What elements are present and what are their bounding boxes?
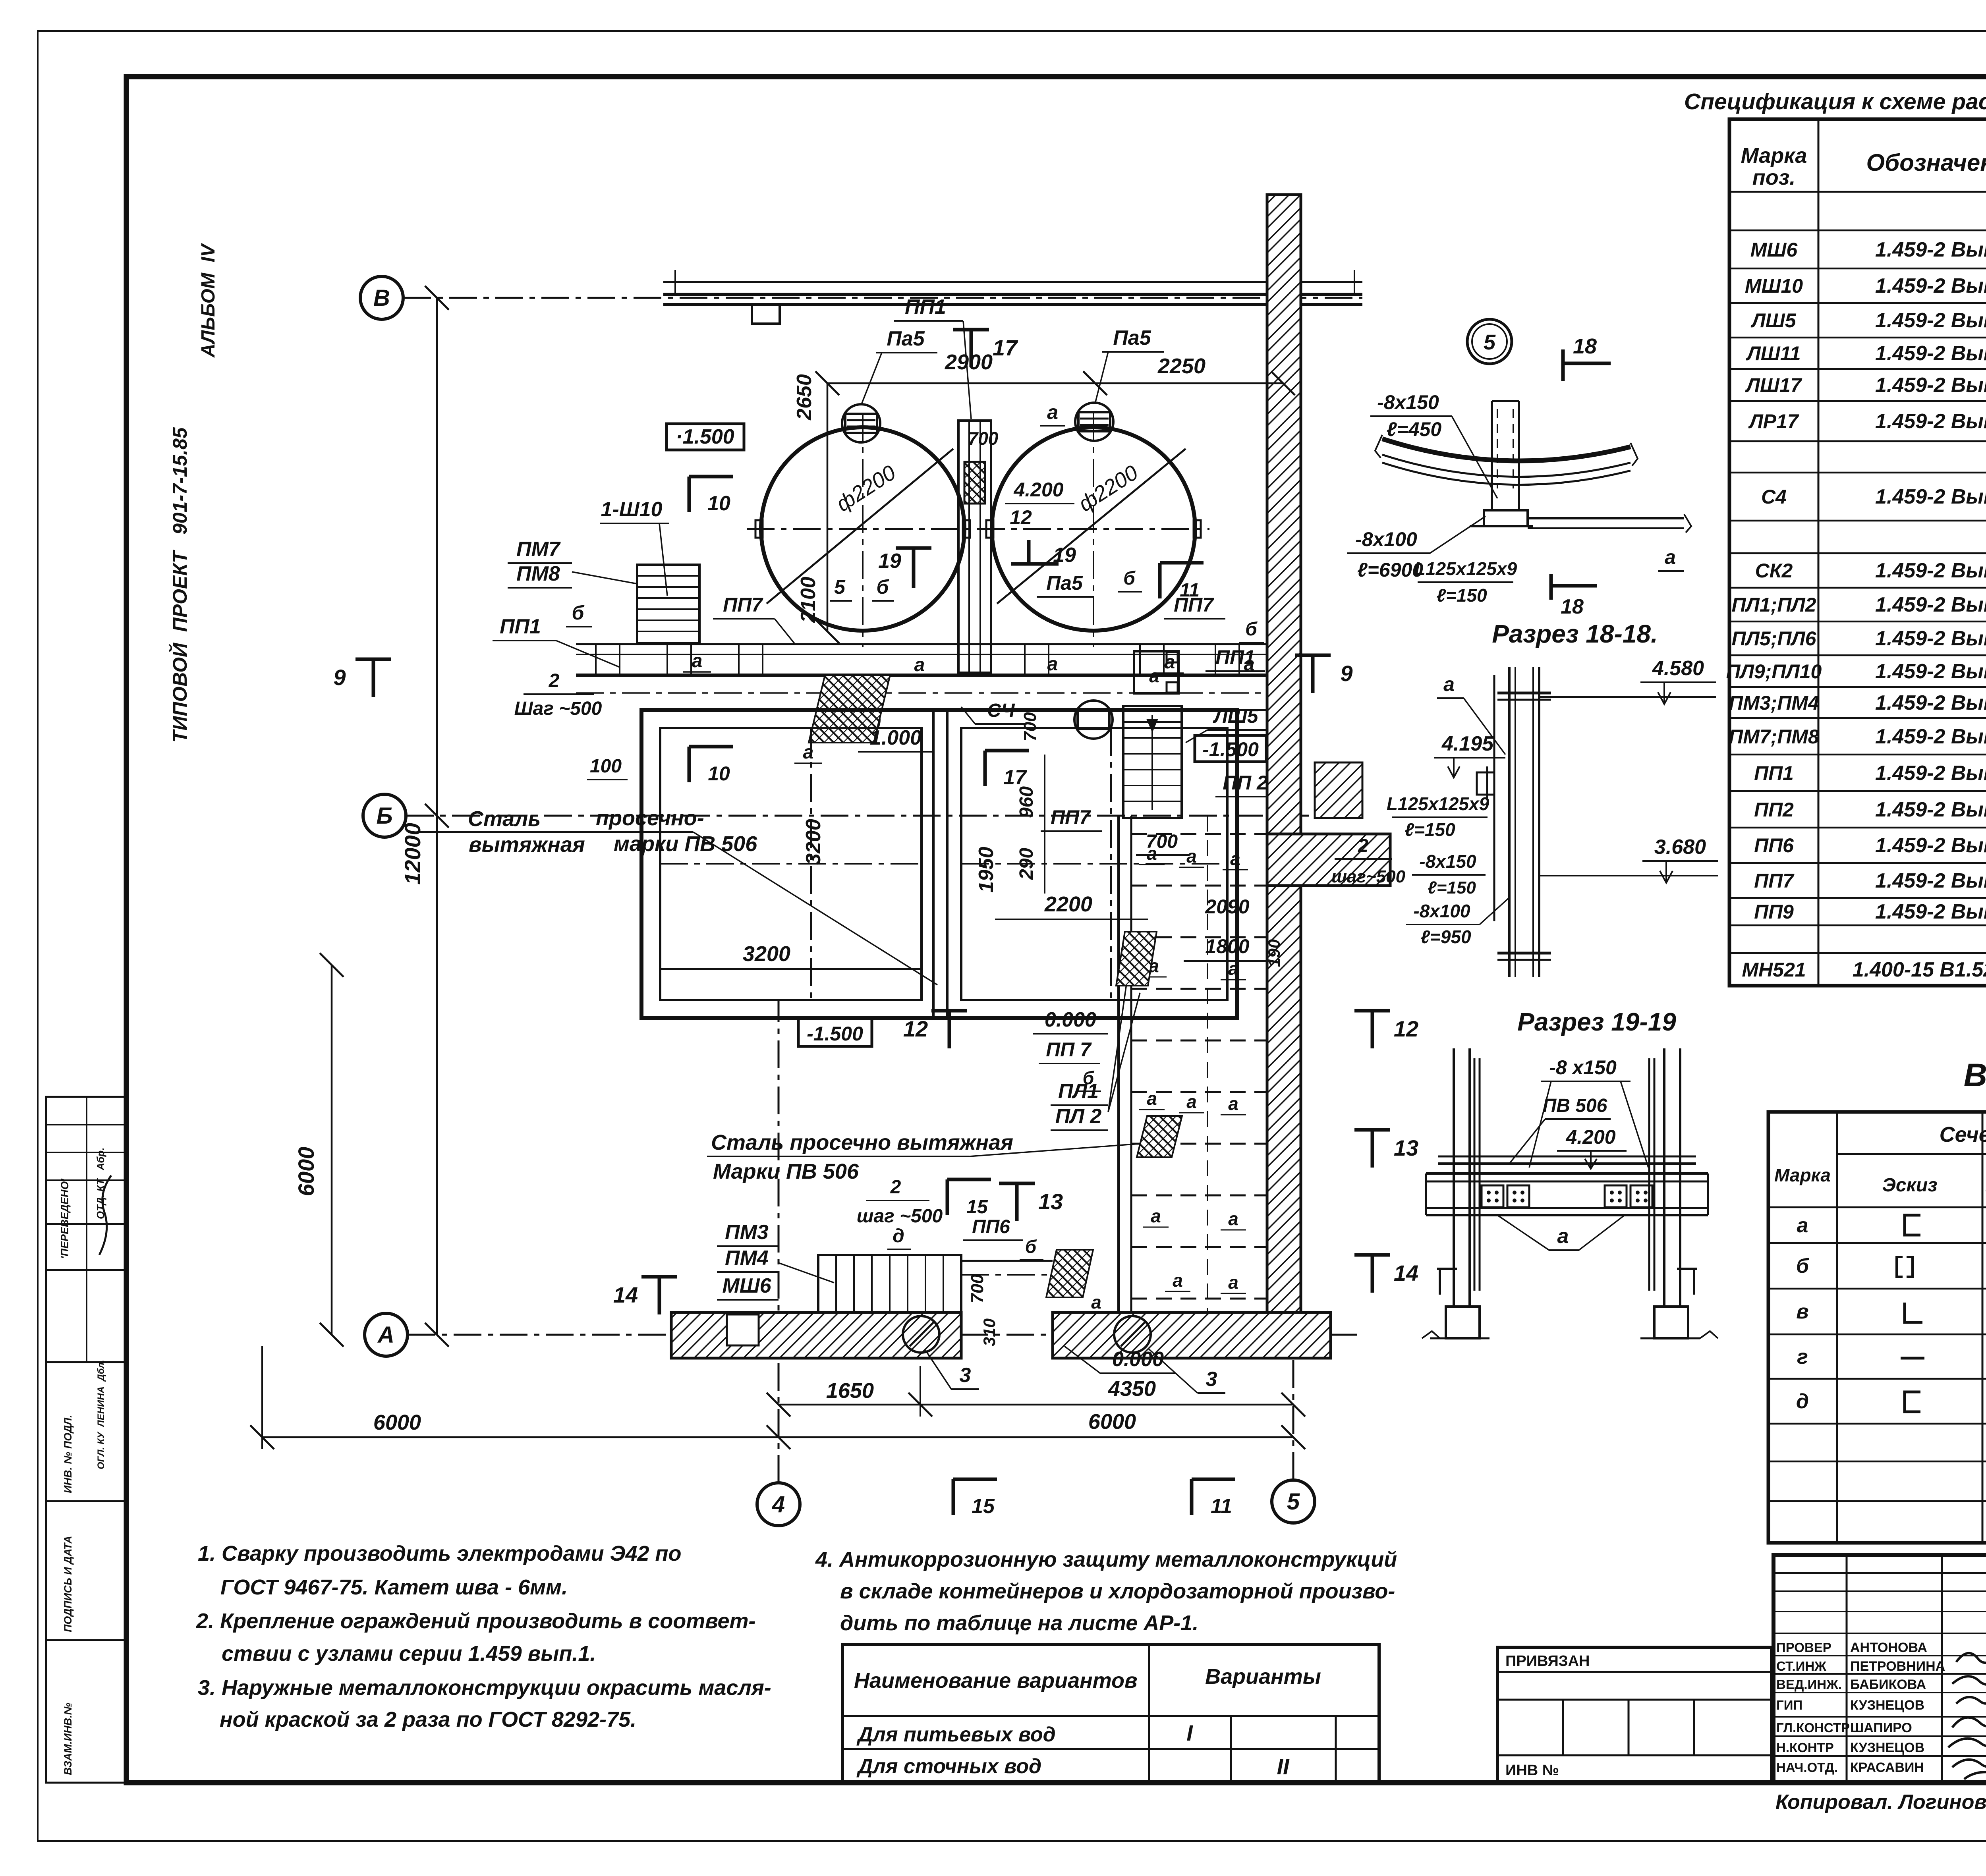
svg-text:ТИПОВОЙ ПРОЕКТ 901-7-15.85: ТИПОВОЙ ПРОЕКТ 901-7-15.85 bbox=[168, 427, 191, 743]
svg-text:а: а bbox=[1665, 546, 1676, 568]
dim line 2900/2250 bbox=[827, 382, 1283, 384]
sidebar lower boxes bbox=[46, 1362, 126, 1783]
svg-text:Обозначение: Обозначение bbox=[1866, 149, 1986, 176]
svg-text:а: а bbox=[692, 650, 703, 672]
svg-text:а: а bbox=[1047, 654, 1058, 675]
axis 4 bbox=[757, 1483, 800, 1526]
top wall beam bbox=[663, 281, 1362, 283]
svg-text:960: 960 bbox=[1016, 786, 1037, 818]
svg-text:13: 13 bbox=[1038, 1189, 1063, 1214]
svg-text:ℓ=450: ℓ=450 bbox=[1387, 418, 1442, 440]
svg-text:д: д bbox=[1796, 1390, 1809, 1413]
svg-text:-8x150: -8x150 bbox=[1377, 391, 1439, 413]
tank 2 top nozzle bbox=[1075, 403, 1113, 441]
svg-text:12: 12 bbox=[1010, 506, 1032, 529]
sec 11 bottom bbox=[1190, 1479, 1194, 1515]
svg-text:ПЛ 2: ПЛ 2 bbox=[1055, 1105, 1102, 1128]
svg-text:просечно-: просечно- bbox=[596, 806, 704, 830]
manhole circle 2 bbox=[1114, 1316, 1151, 1353]
18-18 column bbox=[1491, 401, 1493, 510]
svg-text:·1.500: ·1.500 bbox=[676, 425, 734, 448]
vertical dim line left (12000) bbox=[436, 298, 438, 1335]
svg-text:19: 19 bbox=[878, 550, 901, 573]
dim 2650 vertical bbox=[827, 383, 829, 631]
19-19 elevation column bbox=[1508, 667, 1511, 977]
svg-text:1.000: 1.000 bbox=[870, 726, 922, 749]
svg-text:а: а bbox=[1228, 1272, 1238, 1293]
svg-text:ЛР17: ЛР17 bbox=[1748, 410, 1799, 432]
svg-text:2250: 2250 bbox=[1157, 354, 1206, 378]
svg-text:ℓ=950: ℓ=950 bbox=[1420, 926, 1471, 947]
upper right stair ЛШ5 bbox=[1123, 706, 1182, 818]
svg-text:СЧ: СЧ bbox=[987, 700, 1015, 721]
svg-text:а: а bbox=[1230, 848, 1240, 869]
svg-text:ПМ7: ПМ7 bbox=[516, 538, 561, 561]
svg-text:290: 290 bbox=[1016, 848, 1037, 880]
svg-text:I: I bbox=[1186, 1720, 1193, 1745]
spec table grid bbox=[1729, 119, 1986, 986]
axis Б bbox=[363, 794, 406, 837]
svg-text:4. Антикоррозионную защиту м: 4. Антикоррозионную защиту металлоконстр… bbox=[815, 1548, 1397, 1571]
svg-text:ЛШ5: ЛШ5 bbox=[1750, 309, 1796, 332]
boxed -1.500 lower bbox=[798, 1019, 872, 1046]
section: circled 5 bbox=[1467, 319, 1512, 364]
svg-text:ГОСТ 9467-75. Катет шва - 6мм.: ГОСТ 9467-75. Катет шва - 6мм. bbox=[220, 1575, 568, 1599]
svg-text:Для сточных вод: Для сточных вод bbox=[856, 1755, 1041, 1778]
signatures bbox=[1956, 1653, 1986, 1663]
axis А bbox=[365, 1313, 408, 1356]
variants table bbox=[842, 1644, 1379, 1781]
svg-text:1.459-2 Вып.2: 1.459-2 Вып.2 bbox=[1875, 593, 1986, 616]
svg-text:2090: 2090 bbox=[1205, 896, 1249, 918]
svg-text:1.459-2 Вып.2: 1.459-2 Вып.2 bbox=[1875, 691, 1986, 714]
svg-text:Марки ПВ 506: Марки ПВ 506 bbox=[713, 1160, 859, 1183]
tank 2 bbox=[992, 427, 1195, 631]
svg-text:а: а bbox=[1091, 1292, 1101, 1312]
svg-text:-1.500: -1.500 bbox=[807, 1023, 863, 1045]
svg-text:Марка: Марка bbox=[1774, 1165, 1831, 1185]
svg-text:ВЕД.ИНЖ.: ВЕД.ИНЖ. bbox=[1776, 1677, 1842, 1692]
svg-text:ПП6: ПП6 bbox=[972, 1216, 1010, 1237]
svg-text:вытяжная: вытяжная bbox=[469, 833, 585, 857]
svg-text:МШ6: МШ6 bbox=[722, 1274, 771, 1297]
svg-text:11: 11 bbox=[1211, 1495, 1232, 1518]
svg-text:а: а bbox=[1797, 1214, 1808, 1237]
svg-text:ПМ7;ПМ8: ПМ7;ПМ8 bbox=[1729, 726, 1819, 748]
svg-text:Б: Б bbox=[376, 803, 392, 829]
svg-text:2: 2 bbox=[1358, 835, 1368, 856]
sec 9 left bbox=[372, 659, 375, 697]
svg-text:Варианты: Варианты bbox=[1205, 1665, 1321, 1689]
svg-text:1.459-2 Вып.1: 1.459-2 Вып.1 bbox=[1875, 410, 1986, 433]
svg-text:а: а bbox=[1149, 666, 1159, 686]
svg-text:-8x100: -8x100 bbox=[1413, 901, 1470, 921]
svg-text:Марка: Марка bbox=[1741, 144, 1807, 168]
svg-text:б: б bbox=[877, 576, 890, 598]
19-19 frame left column bbox=[1453, 1048, 1455, 1307]
bolt group left bbox=[1482, 1185, 1503, 1207]
tank 2 side lugs bbox=[986, 520, 993, 538]
svg-text:18: 18 bbox=[1573, 334, 1597, 358]
svg-text:1.459-2 Вып.2: 1.459-2 Вып.2 bbox=[1875, 660, 1986, 683]
left column foot bbox=[1439, 1269, 1441, 1295]
svg-text:КРАСАВИН: КРАСАВИН bbox=[1850, 1760, 1924, 1775]
sec 17 top bbox=[970, 330, 973, 367]
title block frame bbox=[1773, 1555, 1986, 1783]
18-18 tank shell arcs bbox=[1382, 439, 1631, 461]
svg-text:в складе контейнеров и хлордоз: в складе контейнеров и хлордозаторной пр… bbox=[840, 1579, 1395, 1603]
svg-text:б: б bbox=[1245, 619, 1258, 640]
svg-text:1.459-2 Вып.1: 1.459-2 Вып.1 bbox=[1875, 342, 1986, 365]
svg-text:ПП7: ПП7 bbox=[723, 594, 763, 616]
svg-text:а: а bbox=[1228, 1208, 1238, 1229]
bolt group right bbox=[1605, 1185, 1627, 1207]
svg-text:ℓ=150: ℓ=150 bbox=[1428, 878, 1476, 897]
19-19 channel left bbox=[1493, 675, 1495, 921]
sec 14 right flag bbox=[1371, 1255, 1374, 1293]
svg-text:а: а bbox=[1173, 1270, 1183, 1291]
svg-text:Сечение: Сечение bbox=[1940, 1123, 1986, 1146]
svg-text:5: 5 bbox=[1287, 1489, 1300, 1515]
beam tab bbox=[752, 305, 780, 324]
room right inner bbox=[961, 728, 1227, 1000]
svg-text:а: а bbox=[1557, 1225, 1569, 1248]
stair rail lines bbox=[961, 1260, 1053, 1262]
svg-text:3: 3 bbox=[960, 1364, 971, 1387]
svg-text:L125x125x9: L125x125x9 bbox=[1387, 793, 1489, 814]
svg-text:17: 17 bbox=[993, 335, 1018, 360]
svg-text:2650: 2650 bbox=[793, 374, 816, 421]
svg-text:а: а bbox=[1443, 673, 1455, 695]
platform chain line bbox=[576, 692, 1267, 694]
boxed -1.500 right bbox=[1195, 735, 1266, 762]
svg-text:-1.500: -1.500 bbox=[1202, 738, 1259, 760]
svg-text:9: 9 bbox=[1340, 661, 1352, 686]
svg-text:б: б bbox=[1025, 1236, 1037, 1257]
svg-text:а: а bbox=[1147, 1088, 1157, 1109]
svg-text:1.459-2 Вып.2: 1.459-2 Вып.2 bbox=[1875, 869, 1986, 892]
sec flag 18 top bbox=[1561, 349, 1565, 381]
svg-text:Для питьевых вод: Для питьевых вод bbox=[856, 1723, 1056, 1746]
svg-text:а: а bbox=[1047, 401, 1058, 423]
tank 1 bottom nozzle bbox=[841, 701, 879, 739]
platform band bbox=[576, 643, 1267, 645]
19-19 flange top bbox=[1497, 692, 1551, 695]
room divider bbox=[932, 710, 935, 1018]
corner platform panel bbox=[1134, 651, 1178, 693]
sec 15 + ПП6 bbox=[946, 1179, 949, 1215]
svg-text:поз.: поз. bbox=[1752, 166, 1796, 189]
svg-text:ПП1: ПП1 bbox=[1215, 646, 1255, 668]
svg-text:10: 10 bbox=[708, 762, 730, 785]
19-19 frame beam bbox=[1426, 1172, 1708, 1175]
18-18 breaks bbox=[1375, 435, 1382, 458]
svg-text:С4: С4 bbox=[1761, 486, 1787, 508]
svg-text:г: г bbox=[1797, 1345, 1808, 1368]
svg-text:б: б bbox=[1123, 568, 1136, 589]
svg-text:ПЛ9;ПЛ10: ПЛ9;ПЛ10 bbox=[1726, 660, 1822, 683]
svg-text:ствии с узлами серии 1.459 вып: ствии с узлами серии 1.459 вып.1. bbox=[222, 1642, 596, 1666]
room left inner bbox=[660, 728, 922, 1000]
svg-text:3.680: 3.680 bbox=[1654, 836, 1706, 859]
svg-text:4: 4 bbox=[772, 1492, 785, 1517]
svg-text:ℓ=6900: ℓ=6900 bbox=[1357, 559, 1423, 581]
svg-text:700: 700 bbox=[1146, 831, 1178, 852]
svg-text:д: д bbox=[893, 1226, 904, 1247]
svg-text:-8x100: -8x100 bbox=[1355, 528, 1417, 550]
bottom wall hatched bbox=[671, 1312, 961, 1358]
svg-text:17: 17 bbox=[1003, 766, 1027, 789]
svg-text:4.195: 4.195 bbox=[1441, 732, 1494, 755]
dim line 6000 6000 bbox=[262, 1436, 1293, 1438]
svg-text:4.200: 4.200 bbox=[1013, 479, 1063, 501]
svg-text:СТ.ИНЖ: СТ.ИНЖ bbox=[1776, 1659, 1826, 1673]
svg-text:5: 5 bbox=[834, 576, 846, 598]
svg-text:1800: 1800 bbox=[1205, 935, 1249, 957]
svg-text:2200: 2200 bbox=[1044, 892, 1092, 916]
svg-text:ПП9: ПП9 bbox=[1754, 901, 1794, 923]
svg-text:Копировал. Логинова: Копировал. Логинова bbox=[1775, 1791, 1986, 1814]
hatched patch on platform bbox=[809, 675, 890, 743]
sec 19 marks bbox=[896, 546, 931, 550]
svg-text:3: 3 bbox=[1206, 1368, 1217, 1391]
svg-text:700: 700 bbox=[968, 428, 999, 449]
axis 5 bbox=[1272, 1480, 1315, 1523]
svg-text:Шаг ~500: Шаг ~500 bbox=[514, 698, 602, 719]
svg-text:КУЗНЕЦОВ: КУЗНЕЦОВ bbox=[1850, 1698, 1924, 1713]
svg-text:АЛЬБОМ IV: АЛЬБОМ IV bbox=[198, 243, 219, 358]
svg-text:1.459-2 Вып.1: 1.459-2 Вып.1 bbox=[1875, 485, 1986, 508]
svg-text:1.459-2 Вып.1: 1.459-2 Вып.1 bbox=[1875, 238, 1986, 261]
svg-text:ПМ4: ПМ4 bbox=[725, 1247, 769, 1270]
svg-text:'ПЕРЕВЕДЕНО': 'ПЕРЕВЕДЕНО' bbox=[59, 1178, 71, 1259]
tank 1 bbox=[761, 427, 964, 631]
svg-text:СК2: СК2 bbox=[1755, 560, 1793, 582]
svg-text:Па5: Па5 bbox=[1046, 572, 1083, 594]
svg-text:ПП1: ПП1 bbox=[905, 295, 946, 318]
sec flag 18 bottom bbox=[1549, 574, 1553, 600]
svg-text:-8x150: -8x150 bbox=[1419, 851, 1476, 872]
svg-text:1.459-2 Вып.2: 1.459-2 Вып.2 bbox=[1875, 559, 1986, 582]
svg-text:ПЛ1;ПЛ2: ПЛ1;ПЛ2 bbox=[1732, 594, 1816, 616]
svg-text:Сталь: Сталь bbox=[468, 807, 541, 831]
tank 1 side lugs bbox=[755, 520, 763, 538]
svg-text:ПП6: ПП6 bbox=[1754, 834, 1794, 857]
svg-text:15: 15 bbox=[966, 1197, 988, 1218]
svg-text:ОГЛ. КУ ЛЕНИНА Дбл.: ОГЛ. КУ ЛЕНИНА Дбл. bbox=[96, 1360, 106, 1469]
svg-text:2: 2 bbox=[890, 1177, 901, 1198]
svg-text:1. Сварку производить электрод: 1. Сварку производить электродами Э42 по bbox=[198, 1542, 681, 1565]
svg-text:14: 14 bbox=[613, 1282, 638, 1307]
svg-text:1.459-2 Вып.2: 1.459-2 Вып.2 bbox=[1875, 762, 1986, 785]
svg-text:ℓ=150: ℓ=150 bbox=[1404, 819, 1455, 840]
svg-text:12: 12 bbox=[903, 1016, 928, 1041]
svg-text:ЛШ11: ЛШ11 bbox=[1746, 342, 1801, 365]
svg-text:АНТОНОВА: АНТОНОВА bbox=[1850, 1640, 1927, 1655]
svg-text:а: а bbox=[1228, 1093, 1238, 1114]
right column foot bbox=[1693, 1269, 1695, 1295]
svg-text:15: 15 bbox=[972, 1495, 995, 1518]
18-18 dashed column top bbox=[1497, 409, 1498, 488]
svg-text:ПП 2: ПП 2 bbox=[1223, 772, 1268, 794]
svg-text:а: а bbox=[803, 742, 814, 763]
svg-text:б: б bbox=[572, 602, 585, 624]
svg-text:КУЗНЕЦОВ: КУЗНЕЦОВ bbox=[1850, 1740, 1924, 1755]
svg-text:2. Крепление ограждений произв: 2. Крепление ограждений производить в со… bbox=[196, 1609, 756, 1633]
svg-text:1.459-2 Вып.1: 1.459-2 Вып.1 bbox=[1875, 309, 1986, 332]
svg-text:А: А bbox=[377, 1322, 394, 1348]
svg-text:Сталь просечно вытяжная: Сталь просечно вытяжная bbox=[711, 1131, 1013, 1154]
svg-text:ГЛ.КОНСТР: ГЛ.КОНСТР bbox=[1776, 1720, 1850, 1735]
svg-text:ной краской за 2 раза по ГОСТ: ной краской за 2 раза по ГОСТ 8292-75. bbox=[220, 1708, 636, 1731]
wall door gap ledge bbox=[1267, 834, 1390, 886]
svg-text:Па5: Па5 bbox=[1113, 326, 1151, 349]
svg-text:В: В bbox=[373, 285, 390, 311]
svg-text:ПОДПИСЬ И ДАТА: ПОДПИСЬ И ДАТА bbox=[62, 1536, 74, 1632]
svg-text:ОТД. КТ Абр.: ОТД. КТ Абр. bbox=[95, 1147, 106, 1219]
svg-text:1.459-2 Вып.1: 1.459-2 Вып.1 bbox=[1875, 274, 1986, 297]
svg-text:а: а bbox=[914, 654, 925, 676]
svg-text:ПРОВЕР: ПРОВЕР bbox=[1776, 1640, 1831, 1655]
svg-text:дить по таблице на листе АР-1: дить по таблице на листе АР-1. bbox=[840, 1611, 1198, 1635]
manhole circle 1 bbox=[903, 1316, 939, 1353]
svg-text:ПМ3: ПМ3 bbox=[725, 1221, 769, 1244]
svg-text:2900: 2900 bbox=[945, 350, 993, 374]
svg-text:марки ПВ 506: марки ПВ 506 bbox=[614, 832, 757, 856]
19-19 flange bottom bbox=[1497, 952, 1551, 955]
svg-text:Разрез 18-18.: Разрез 18-18. bbox=[1492, 620, 1658, 648]
svg-text:100: 100 bbox=[590, 756, 622, 777]
privyazan stamp bbox=[1497, 1647, 1772, 1783]
tank 2 bottom nozzle bbox=[1074, 701, 1113, 739]
svg-text:0.000: 0.000 bbox=[1045, 1008, 1096, 1031]
svg-text:МН521: МН521 bbox=[1742, 959, 1806, 981]
svg-text:1.459-2 Вып.2: 1.459-2 Вып.2 bbox=[1875, 834, 1986, 857]
svg-text:ИНВ. № ПОДЛ.: ИНВ. № ПОДЛ. bbox=[62, 1415, 74, 1493]
svg-text:310: 310 bbox=[980, 1318, 999, 1346]
svg-text:ШАПИРО: ШАПИРО bbox=[1850, 1720, 1912, 1735]
svg-text:в: в bbox=[1796, 1300, 1808, 1323]
sec 13 left bbox=[1015, 1183, 1019, 1221]
svg-text:ПМ3;ПМ4: ПМ3;ПМ4 bbox=[1729, 692, 1819, 714]
svg-text:ИНВ №: ИНВ № bbox=[1505, 1762, 1559, 1779]
central column between tanks bbox=[958, 421, 991, 673]
sidebar stamp boxes bbox=[46, 1097, 126, 1362]
svg-text:9: 9 bbox=[333, 665, 346, 690]
svg-text:Эскиз: Эскиз bbox=[1882, 1175, 1937, 1196]
19-19 frame bottom break marks bbox=[1422, 1331, 1440, 1338]
svg-text:ПВ 506: ПВ 506 bbox=[1543, 1095, 1607, 1116]
svg-text:II: II bbox=[1277, 1754, 1290, 1779]
stairs 1-Ш10 bbox=[637, 565, 699, 643]
bottom wall gap square bbox=[727, 1314, 759, 1345]
svg-text:5: 5 bbox=[1484, 330, 1496, 354]
svg-text:190: 190 bbox=[1265, 939, 1283, 967]
svg-text:а: а bbox=[1186, 1091, 1197, 1112]
svg-text:2100: 2100 bbox=[797, 577, 820, 623]
top dim ticks bbox=[674, 270, 676, 294]
vedomost grid bbox=[1768, 1112, 1986, 1543]
svg-text:ℓ=150: ℓ=150 bbox=[1436, 585, 1487, 606]
svg-text:МШ10: МШ10 bbox=[1745, 275, 1803, 297]
svg-text:13: 13 bbox=[1394, 1135, 1418, 1160]
right strip corridor bbox=[1117, 816, 1120, 1312]
svg-text:14: 14 bbox=[1394, 1260, 1418, 1285]
svg-text:4.200: 4.200 bbox=[1565, 1126, 1615, 1148]
svg-text:ПП7: ПП7 bbox=[1174, 594, 1214, 616]
svg-text:4.580: 4.580 bbox=[1652, 657, 1704, 680]
svg-text:ПРИВЯЗАН: ПРИВЯЗАН bbox=[1505, 1653, 1590, 1669]
strip hatch patches bbox=[1116, 932, 1157, 986]
sec 15 bottom bbox=[952, 1479, 955, 1515]
svg-text:Па5: Па5 bbox=[887, 327, 925, 350]
sec 12 left bbox=[948, 1011, 951, 1048]
svg-text:1.459-2 Вып.1: 1.459-2 Вып.1 bbox=[1875, 374, 1986, 397]
svg-text:ПП1: ПП1 bbox=[500, 615, 541, 638]
svg-text:ПМ8: ПМ8 bbox=[516, 562, 560, 585]
svg-text:3. Наружные металлоконструкции: 3. Наружные металлоконструкции окрасить … bbox=[198, 1676, 771, 1700]
svg-text:а: а bbox=[1151, 1206, 1161, 1226]
sec 9 right bbox=[1311, 655, 1315, 693]
svg-text:ПП7: ПП7 bbox=[1051, 806, 1091, 828]
svg-text:1950: 1950 bbox=[975, 847, 998, 893]
svg-text:а: а bbox=[1186, 846, 1197, 867]
boxed +1.500 bbox=[667, 424, 744, 450]
svg-text:Спецификация к схеме расположе: Спецификация к схеме расположения площад… bbox=[1684, 89, 1986, 114]
svg-text:19: 19 bbox=[1053, 544, 1076, 567]
strip platform grid bbox=[1131, 833, 1267, 835]
svg-text:Наименование вариантов: Наименование вариантов bbox=[854, 1669, 1138, 1693]
svg-text:ПП7: ПП7 bbox=[1754, 870, 1795, 892]
svg-text:ЛШ5: ЛШ5 bbox=[1213, 705, 1258, 727]
svg-text:1.459-2 Вып.2: 1.459-2 Вып.2 bbox=[1875, 900, 1986, 923]
svg-text:12: 12 bbox=[1394, 1016, 1418, 1041]
svg-text:1-Ш10: 1-Ш10 bbox=[601, 498, 663, 521]
svg-text:4350: 4350 bbox=[1108, 1377, 1156, 1401]
svg-text:ГИП: ГИП bbox=[1776, 1698, 1802, 1712]
svg-text:1650: 1650 bbox=[826, 1379, 874, 1403]
svg-text:10: 10 bbox=[707, 492, 730, 515]
right wall hatched bbox=[1267, 195, 1301, 834]
svg-text:Ведомость сечений.: Ведомость сечений. bbox=[1964, 1057, 1986, 1093]
rooms outer rect bbox=[641, 710, 1237, 1018]
svg-text:0.000: 0.000 bbox=[1112, 1348, 1164, 1371]
svg-text:ПЕТРОВНИНА: ПЕТРОВНИНА bbox=[1850, 1659, 1945, 1674]
svg-text:Н.КОНТР: Н.КОНТР bbox=[1776, 1740, 1834, 1755]
vedomost sketch symbols bbox=[1905, 1215, 1920, 1235]
svg-text:б: б bbox=[1796, 1255, 1810, 1278]
svg-text:НАЧ.ОТД.: НАЧ.ОТД. bbox=[1776, 1760, 1838, 1775]
beam top plate bbox=[1438, 1162, 1696, 1165]
svg-text:ПП1: ПП1 bbox=[1754, 762, 1794, 784]
sec 10 top bbox=[688, 477, 691, 512]
svg-text:ВЗАМ.ИНВ.№: ВЗАМ.ИНВ.№ bbox=[62, 1702, 74, 1775]
svg-text:-8 x150: -8 x150 bbox=[1549, 1056, 1617, 1079]
svg-text:ПП2: ПП2 bbox=[1754, 799, 1794, 821]
svg-text:БАБИКОВА: БАБИКОВА bbox=[1850, 1677, 1926, 1692]
svg-text:18: 18 bbox=[1561, 595, 1584, 618]
room inner cross lines bbox=[660, 863, 922, 865]
sec 17 mid bbox=[983, 751, 987, 786]
sec 11 upper right bbox=[1158, 563, 1162, 598]
svg-text:6000: 6000 bbox=[294, 1147, 319, 1197]
svg-text:ПЛ5;ПЛ6: ПЛ5;ПЛ6 bbox=[1732, 627, 1817, 650]
svg-text:б: б bbox=[1083, 1067, 1095, 1088]
tank 1 top nozzle bbox=[842, 404, 880, 442]
svg-text:2: 2 bbox=[549, 670, 560, 691]
svg-text:шаг~500: шаг~500 bbox=[1331, 867, 1406, 886]
sec 14 left bbox=[658, 1277, 661, 1314]
